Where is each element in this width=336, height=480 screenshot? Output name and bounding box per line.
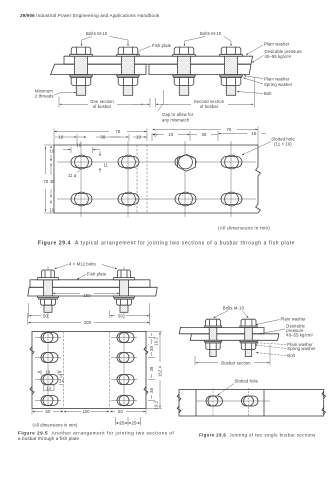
label "Bolt" (29.6) with leader xyxy=(256,353,296,359)
hole L3 (with detail dims) xyxy=(35,375,61,385)
section B end (visible edge) xyxy=(195,390,197,417)
svg-text:Figure 29.6 Jointing of two s: Figure 29.6 Jointing of two single busba… xyxy=(199,433,316,438)
dimension 50 (right bolt) xyxy=(110,303,150,318)
svg-text:Slotted hole: Slotted hole xyxy=(235,379,259,384)
label "Bolts M-10" (right pair) with leaders xyxy=(185,31,232,46)
svg-text:38: 38 xyxy=(202,132,207,137)
column centreline left xyxy=(47,333,49,408)
second section extension tick xyxy=(254,77,256,108)
label "4 x M12 bolts" with leaders xyxy=(55,262,118,269)
fish plate outline (29.5 plan) xyxy=(32,332,146,409)
svg-text:16: 16 xyxy=(77,143,82,148)
top dimension 76 (left section) xyxy=(54,129,147,146)
svg-text:38: 38 xyxy=(149,366,154,371)
svg-text:19: 19 xyxy=(46,370,51,375)
label "Second section of busbar" xyxy=(194,99,225,109)
svg-text:(11 × 16): (11 × 16) xyxy=(274,142,292,147)
slotted hole r2c3 xyxy=(175,192,196,206)
note: all dimensions in mm (29.5) xyxy=(33,423,78,428)
label "One section of busbar" xyxy=(90,99,114,109)
svg-text:2 threads: 2 threads xyxy=(35,94,54,99)
dimension "Busbar section" xyxy=(195,345,270,365)
left dimension 19 (bottom) xyxy=(44,201,55,214)
leader to gap note xyxy=(158,90,164,112)
svg-text:14: 14 xyxy=(59,378,64,383)
svg-text:38: 38 xyxy=(50,179,55,184)
caption figure 29.5 xyxy=(18,431,174,441)
svg-text:50: 50 xyxy=(46,409,51,414)
label "Bolts M-10" (29.6) with leaders xyxy=(214,306,249,319)
svg-text:19: 19 xyxy=(50,207,55,212)
bolt centreline left xyxy=(47,267,49,320)
dimension "one section" extension tick xyxy=(58,97,60,108)
hidden busbar end (left section) xyxy=(63,332,65,409)
column centreline 3 xyxy=(184,141,186,217)
busbar section B (lower, to right) xyxy=(190,334,278,341)
svg-text:200: 200 xyxy=(84,320,92,325)
svg-text:19.2: 19.2 xyxy=(154,400,159,409)
fish plate (top strip) xyxy=(64,56,253,64)
column centreline 4 xyxy=(230,141,232,217)
svg-text:a busbar through a fish plate: a busbar through a fish plate xyxy=(18,436,79,441)
svg-text:11: 11 xyxy=(104,163,109,168)
bolt 3 (M-10) with nut and washers xyxy=(173,47,196,95)
detail dims 5 and 14 on hole L3 xyxy=(59,374,64,385)
busbar first section (left) xyxy=(51,64,146,74)
svg-text:76: 76 xyxy=(44,179,49,184)
gap dimension arrows xyxy=(132,103,169,105)
label "Spring washer" with leader xyxy=(244,78,293,87)
hidden joint line (right section start) xyxy=(146,145,148,213)
svg-text:Spring washer: Spring washer xyxy=(287,346,316,351)
label "Spring washer" (29.6) with leader xyxy=(255,345,316,351)
gap extension lines xyxy=(150,98,156,108)
svg-text:29/906 Industrial Power Engine: 29/906 Industrial Power Engineering and … xyxy=(20,13,160,18)
hole L2 xyxy=(35,353,61,363)
slotted hole r1c2 xyxy=(118,155,139,169)
bolt 2 (M12) xyxy=(114,270,135,312)
svg-text:Fish plate: Fish plate xyxy=(152,43,172,48)
caption figure 29.4 xyxy=(38,241,295,247)
svg-text:Plain washer: Plain washer xyxy=(264,42,290,47)
svg-text:of busbar: of busbar xyxy=(93,104,112,109)
svg-text:19: 19 xyxy=(169,132,174,137)
busbar section A (upper, from left) xyxy=(179,327,264,333)
svg-text:50: 50 xyxy=(43,313,48,318)
top dimension 76 (right section) xyxy=(153,127,258,146)
svg-text:19: 19 xyxy=(50,148,55,153)
svg-text:152.4: 152.4 xyxy=(158,365,163,377)
svg-text:of busbar: of busbar xyxy=(200,104,219,109)
dimension line: one section of busbar xyxy=(60,103,144,105)
holes centreline (29.6 plan) xyxy=(196,400,270,402)
svg-text:38: 38 xyxy=(149,388,154,393)
hole L1 xyxy=(35,333,61,343)
svg-text:38: 38 xyxy=(149,346,154,351)
svg-text:Bolts M-10: Bolts M-10 xyxy=(200,31,222,36)
slotted hole r1c3 with bolt head xyxy=(175,154,196,171)
label "Plain washer" (above nut) with leader xyxy=(244,76,290,82)
svg-text:19: 19 xyxy=(252,131,257,136)
dimension 50 (left bolt) xyxy=(29,303,49,318)
svg-text:100: 100 xyxy=(83,293,91,298)
column centreline 2 xyxy=(127,141,129,217)
svg-text:100: 100 xyxy=(82,409,90,414)
dimension 200 overall xyxy=(28,313,150,325)
svg-text:11 ø: 11 ø xyxy=(68,173,77,178)
right-side dims 19.2/38/38/38/19.2 and 152.4 xyxy=(146,332,163,410)
top sub-dimensions 19/38/19 (right) xyxy=(153,131,266,141)
detail dim 19 on hole L3 xyxy=(38,370,62,376)
svg-text:19.2: 19.2 xyxy=(154,337,159,346)
label "Plain washer" (29.6 top) with leader xyxy=(256,317,306,325)
bottom dims 50/100/50 xyxy=(32,409,146,415)
hidden joint line (left section end) xyxy=(136,145,138,213)
svg-text:Plain washer: Plain washer xyxy=(264,77,290,82)
svg-text:Fish plate: Fish plate xyxy=(87,272,107,277)
svg-text:38: 38 xyxy=(101,134,106,139)
label "Minimum 2 threads" with arrow xyxy=(35,89,76,99)
note: all dimensions in mm xyxy=(218,226,270,231)
detail dim 16 on hole r1c1 xyxy=(63,143,101,153)
svg-text:any mismatch: any mismatch xyxy=(162,117,190,122)
left dimension 19 (top) xyxy=(44,145,55,161)
label "Bolts M-10" (left pair) with leaders xyxy=(82,31,129,46)
bolt 2 (M-10) with nut and washers xyxy=(117,47,140,95)
bolt 4 (M-10) with nut and washers xyxy=(220,47,243,95)
svg-text:40–55 kg/cm²: 40–55 kg/cm² xyxy=(265,54,292,59)
detail dim 11 (slot width) xyxy=(100,151,109,173)
bolt centreline right xyxy=(123,267,125,320)
header running title xyxy=(20,13,160,18)
bolt 1 (M-10) with nut and washers xyxy=(70,47,93,95)
slotted hole right (29.6) xyxy=(242,396,259,406)
label "Slotted hole" (29.6) with leader xyxy=(218,379,259,396)
svg-text:Plain washer: Plain washer xyxy=(281,317,307,322)
column centreline right xyxy=(123,333,125,408)
svg-text:19: 19 xyxy=(59,134,64,139)
bolt centreline right (plan) xyxy=(248,388,250,416)
svg-text:(All dimensions in mm): (All dimensions in mm) xyxy=(33,423,78,428)
row centreline top xyxy=(57,161,256,163)
label "Bolt" with leader xyxy=(237,91,272,96)
gap dimension 5 xyxy=(152,132,157,141)
column centreline 1 xyxy=(80,141,82,217)
label "Gap to allow for any mismatch" xyxy=(162,112,194,122)
break marks on plate edges xyxy=(30,347,148,395)
svg-text:50: 50 xyxy=(118,313,123,318)
hole R2 xyxy=(111,353,137,363)
row centreline bottom xyxy=(57,198,256,200)
svg-text:4 × M12 bolts: 4 × M12 bolts xyxy=(69,262,96,267)
label "Plain washer" (29.6 bottom) with leader xyxy=(256,342,313,347)
hole R1 xyxy=(111,333,137,343)
svg-text:14: 14 xyxy=(46,386,51,391)
bolt centreline left (plan) xyxy=(212,388,214,416)
bottom dims 25/25 xyxy=(116,417,141,426)
svg-text:Spring washer: Spring washer xyxy=(264,82,293,87)
slotted hole left (29.6) xyxy=(206,396,223,406)
svg-text:One section: One section xyxy=(90,99,114,104)
detail dim 14 boxed below hole L3 xyxy=(44,385,55,391)
dimension 100 between bolts xyxy=(53,293,119,298)
svg-text:76: 76 xyxy=(116,129,121,134)
svg-text:Bolts M-10: Bolts M-10 xyxy=(86,31,108,36)
label "Slotted hole (11 x 16)" with leader xyxy=(242,137,295,156)
hole R4 xyxy=(111,396,137,406)
slotted hole r2c2 xyxy=(118,192,139,206)
svg-text:Busbar section: Busbar section xyxy=(221,360,251,365)
busbar plan outline xyxy=(179,390,324,417)
svg-text:Bolts M-10: Bolts M-10 xyxy=(223,306,245,311)
svg-text:Gap to allow for: Gap to allow for xyxy=(162,112,194,117)
label "Fish plate" (29.5) with leader xyxy=(77,272,107,280)
hole L4 xyxy=(35,396,61,406)
svg-text:Bolt: Bolt xyxy=(264,91,272,96)
svg-text:(All dimensions in mm): (All dimensions in mm) xyxy=(218,226,270,231)
top sub-dimensions 19/38/19 (left) xyxy=(55,134,146,145)
bolt 1 (M12) xyxy=(38,270,59,312)
label "Fish plate" with leader xyxy=(137,43,172,56)
busbar (29.5) xyxy=(28,287,157,296)
break marks (29.6 plan) xyxy=(177,392,325,415)
bolt 5 (M-10) xyxy=(204,319,221,356)
detail label 11 dia xyxy=(68,168,82,178)
slotted hole r1c4 xyxy=(221,155,242,169)
svg-text:76: 76 xyxy=(227,127,232,132)
svg-text:Figure 29.5 Another arrangeme: Figure 29.5 Another arrangement for join… xyxy=(18,431,174,436)
slotted hole r2c1 xyxy=(71,192,92,206)
svg-text:Second section: Second section xyxy=(194,99,225,104)
fish plate outline (plan) with break at right xyxy=(54,145,260,213)
bolt 6 (M-10) xyxy=(240,319,257,356)
svg-text:Bolt: Bolt xyxy=(287,353,295,358)
hidden busbar end (right section) xyxy=(109,332,111,409)
label "Plain washer" (under head) with leader xyxy=(246,42,290,55)
label "Desirable pressure 40-55 kg/cm2" (29.6) with leader xyxy=(259,323,314,337)
caption figure 29.6 xyxy=(199,433,316,438)
hole R3 xyxy=(111,375,137,385)
fish plate (29.5) xyxy=(30,280,150,288)
slotted hole r2c4 xyxy=(221,192,242,206)
svg-text:Figure 29.4 A typical arrange: Figure 29.4 A typical arrangement for jo… xyxy=(38,241,295,247)
section A end (visible edge) xyxy=(263,390,265,417)
svg-text:50: 50 xyxy=(118,409,123,414)
slotted hole r1c1 xyxy=(71,155,92,169)
busbar second section (right) xyxy=(149,64,251,74)
left dimension 76 total and 38 xyxy=(44,147,56,212)
dimension line: second section of busbar xyxy=(160,103,253,105)
svg-text:40–55 kg/cm²: 40–55 kg/cm² xyxy=(286,333,313,338)
label "Desirable pressure 40-55 kg/cm2" with leader xyxy=(252,49,302,63)
